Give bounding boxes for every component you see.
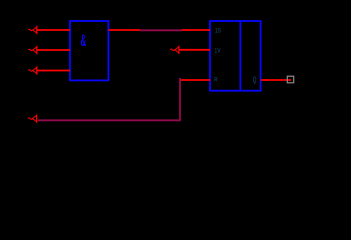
input port arrow 1 xyxy=(28,26,37,35)
wire riser to U2 pin R xyxy=(180,79,210,81)
wire node to U2 pin 1S xyxy=(182,29,210,31)
svg-text:1S: 1S xyxy=(215,28,221,35)
svg-text:R: R xyxy=(214,77,217,84)
wire arrow3 to U1 xyxy=(37,70,70,72)
wire arrow4 to U2 pin 1V xyxy=(179,49,210,51)
wire vertical riser (dark) xyxy=(179,78,181,120)
svg-text:Q: Q xyxy=(253,76,257,85)
wire U2 output Q xyxy=(261,79,291,81)
svg-text:&: & xyxy=(81,31,87,50)
wire arrow1 to U1 xyxy=(37,29,70,31)
flip-flop U2 internal divider xyxy=(239,21,241,91)
and-gate U1 body xyxy=(70,21,108,80)
flip-flop U2 body xyxy=(210,21,261,91)
input port arrow 5 xyxy=(28,114,37,123)
svg-text:1V: 1V xyxy=(215,48,221,55)
wire bottom run from arrow 5 (dark) xyxy=(38,119,181,121)
input port arrow 4 xyxy=(170,46,179,55)
wire arrow2 to U1 xyxy=(37,49,70,51)
wire mid segment (dark) xyxy=(140,29,182,31)
wire U1 output to node (red part) xyxy=(108,29,140,31)
input port arrow 2 xyxy=(28,46,37,55)
open terminal square xyxy=(287,76,293,83)
input port arrow 3 xyxy=(28,66,37,75)
